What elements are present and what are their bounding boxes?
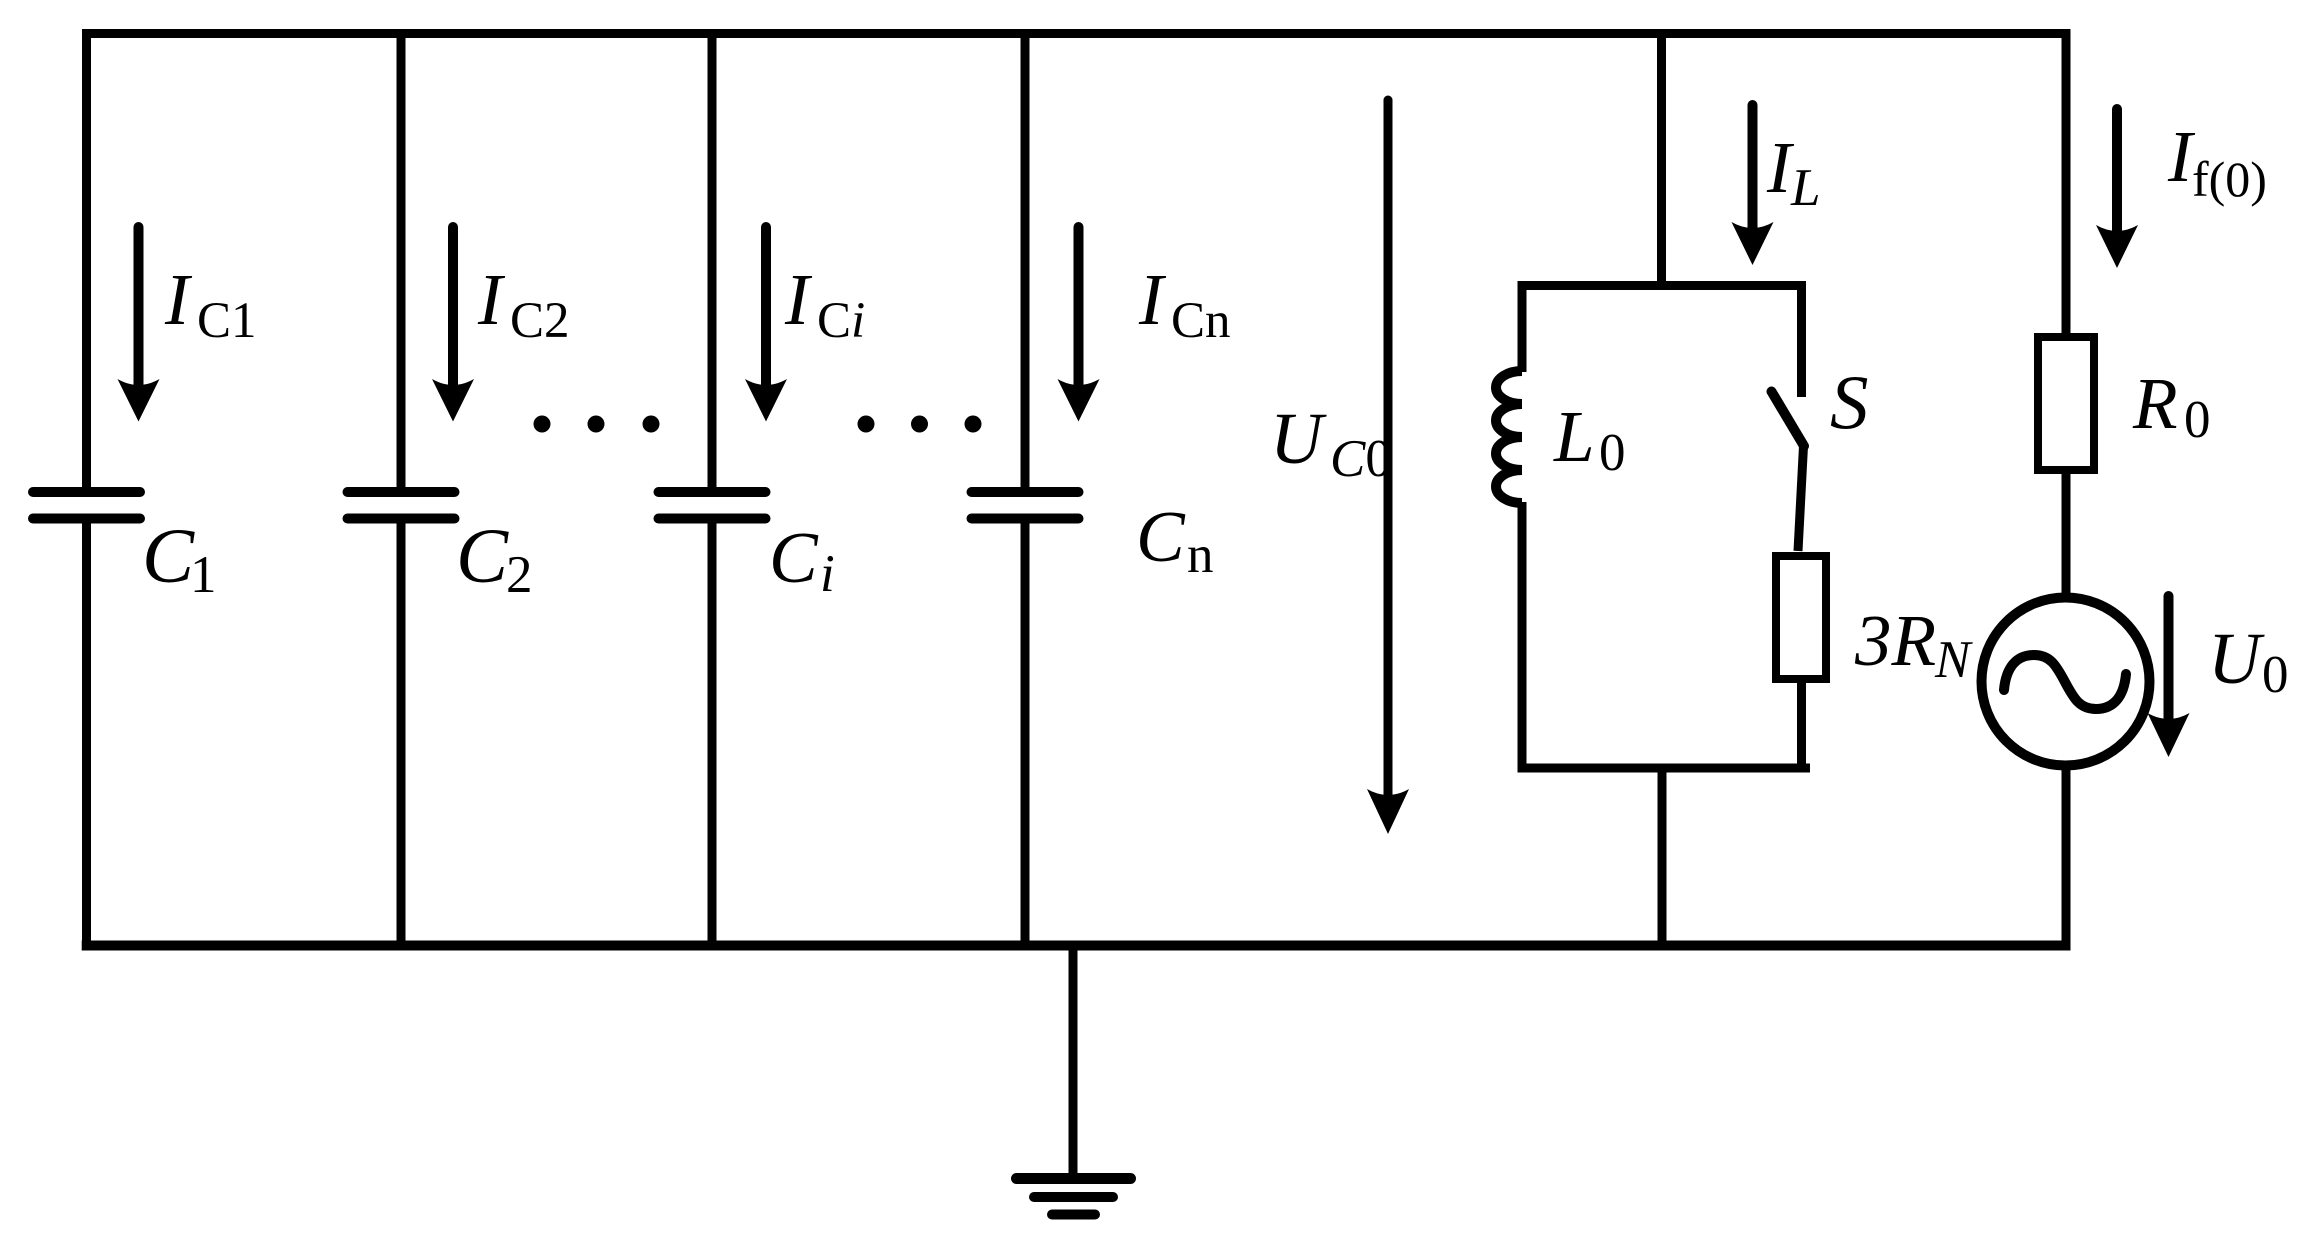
wire resistor to tank bottom xyxy=(1797,682,1806,772)
voltage arrow U0 xyxy=(2164,596,2174,719)
svg-text:N: N xyxy=(1934,631,1973,689)
current arrow ICn xyxy=(1074,227,1084,385)
wire source branch upper xyxy=(2062,29,2071,340)
wire tank top xyxy=(1518,281,1807,290)
svg-text:0: 0 xyxy=(2184,391,2211,449)
svg-text:I: I xyxy=(477,259,506,340)
svg-text:0: 0 xyxy=(1599,424,1626,482)
wire junction branch to LC tank xyxy=(1657,29,1666,290)
current arrow ICi xyxy=(761,227,771,385)
svg-text:C: C xyxy=(456,512,509,599)
inductor L0 xyxy=(1496,371,1522,503)
svg-text:L: L xyxy=(1553,396,1595,477)
dots ellipsis right xyxy=(858,416,875,433)
svg-text:Ci: Ci xyxy=(817,293,865,349)
wire tank to bottom bus xyxy=(1658,768,1667,950)
wire source to bottom bus xyxy=(2062,763,2071,951)
AC source sine xyxy=(2004,655,2126,709)
ground bar 3 xyxy=(1052,1210,1095,1220)
wire R0 to source xyxy=(2062,471,2071,600)
svg-text:S: S xyxy=(1830,359,1869,445)
svg-text:I: I xyxy=(1138,259,1167,340)
svg-text:I: I xyxy=(164,259,193,340)
svg-text:I: I xyxy=(784,259,813,340)
capacitor C1 xyxy=(33,492,140,519)
capacitor Ci xyxy=(659,492,766,519)
wire Ci branch lower xyxy=(708,520,717,950)
current arrow IC1 xyxy=(134,227,144,385)
svg-text:U: U xyxy=(2208,618,2265,699)
capacitor C2 xyxy=(348,492,455,519)
svg-text:C0: C0 xyxy=(1330,430,1392,488)
wire L0 branch upper xyxy=(1518,281,1527,372)
wire switch branch upper xyxy=(1797,281,1806,397)
svg-text:Cn: Cn xyxy=(1171,293,1231,349)
voltage arrow UC0 xyxy=(1384,100,1393,795)
svg-text:C: C xyxy=(769,517,819,598)
wire L0 branch lower xyxy=(1518,502,1527,772)
wire C1 branch upper xyxy=(82,29,91,490)
svg-text:C: C xyxy=(1136,496,1186,577)
current arrow IC2 xyxy=(448,227,458,385)
ground bar 2 xyxy=(1034,1192,1113,1202)
wire C2 branch upper xyxy=(397,29,406,490)
svg-text:3R: 3R xyxy=(1854,600,1936,681)
svg-text:n: n xyxy=(1187,526,1214,584)
dots ellipsis left xyxy=(534,416,551,433)
svg-text:f(0): f(0) xyxy=(2192,151,2267,207)
wire switch to resistor xyxy=(1798,446,1804,551)
AC source U0 circle xyxy=(1982,598,2150,766)
switch S blade xyxy=(1772,392,1805,447)
resistor R0 xyxy=(2038,337,2094,470)
wire tank bottom xyxy=(1518,764,1811,773)
svg-text:U: U xyxy=(1270,398,1327,479)
wire C2 branch lower xyxy=(397,520,406,950)
wire Cn branch lower xyxy=(1021,520,1030,950)
wire bottom bus xyxy=(82,941,2071,951)
svg-text:1: 1 xyxy=(190,546,217,604)
current arrow IL xyxy=(1748,105,1758,228)
wire Cn branch upper xyxy=(1021,29,1030,490)
svg-text:C: C xyxy=(142,512,195,599)
wire C1 branch lower xyxy=(82,520,91,950)
ground stem xyxy=(1069,945,1078,1177)
wire Ci branch upper xyxy=(708,29,717,490)
wire top bus xyxy=(82,29,2071,38)
svg-text:0: 0 xyxy=(2262,646,2289,704)
capacitor Cn xyxy=(972,492,1079,519)
ground bar 1 xyxy=(1017,1173,1131,1184)
svg-text:C2: C2 xyxy=(510,293,570,349)
svg-text:2: 2 xyxy=(506,546,533,604)
current arrow If(0) xyxy=(2112,109,2122,231)
svg-text:R: R xyxy=(2132,363,2178,444)
resistor 3RN xyxy=(1776,556,1826,679)
svg-text:L: L xyxy=(1790,159,1820,217)
svg-text:i: i xyxy=(820,545,835,603)
svg-text:C1: C1 xyxy=(197,293,257,349)
